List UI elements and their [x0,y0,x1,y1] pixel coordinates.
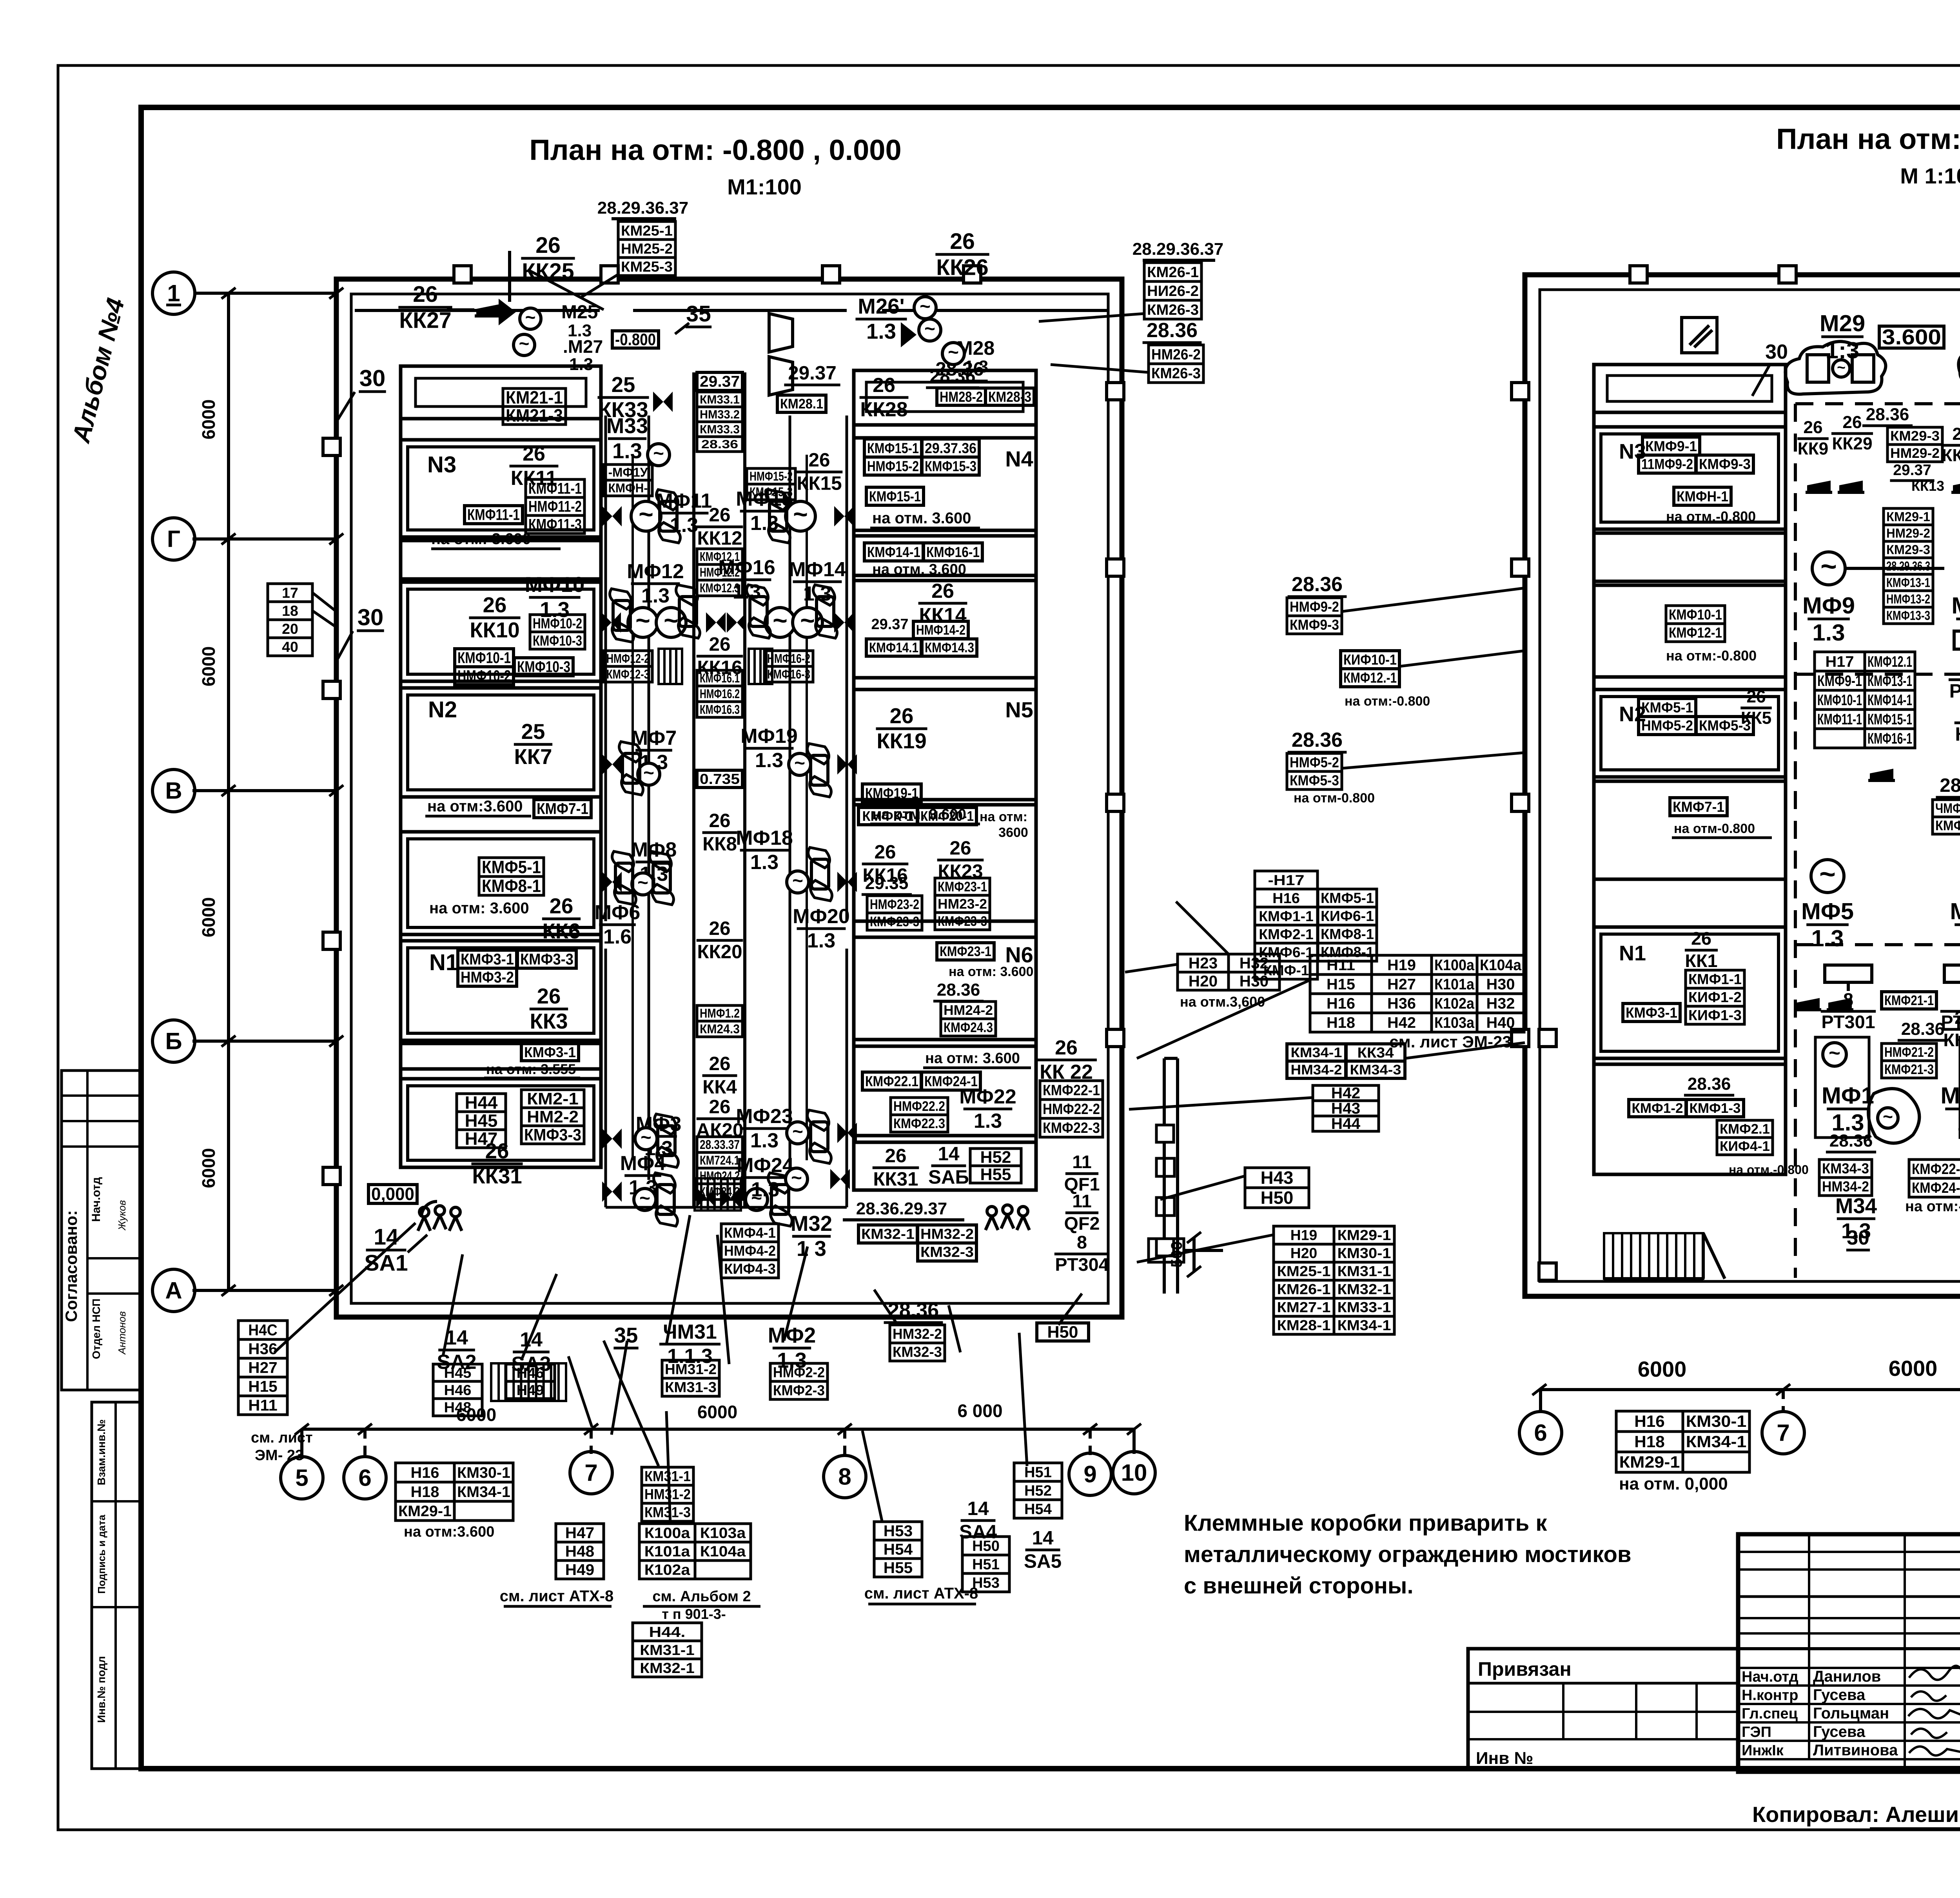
svg-text:КК19: КК19 [877,729,926,753]
right room row10 [854,1142,1036,1190]
corridor M26 cluster [777,229,995,412]
svg-text:Н44: Н44 [1331,1115,1361,1132]
svg-text:Н52: Н52 [980,1148,1011,1167]
svg-text:КМ30-1: КМ30-1 [1686,1412,1747,1430]
central shaft walls [633,372,807,1207]
label 30 top [338,365,386,419]
svg-text:Н51: Н51 [972,1556,1000,1572]
svg-text:КМ724.1: КМ724.1 [700,1153,740,1167]
svg-text:на отм-0.800: на отм-0.800 [1674,821,1755,836]
svg-text:М29: М29 [1820,310,1865,336]
rp room row1 [1594,365,1786,412]
svg-text:20: 20 [282,621,298,637]
svg-text:Литвинова: Литвинова [1813,1742,1898,1759]
svg-text:К101а: К101а [1434,976,1475,993]
shaft stack KM24 [697,1137,742,1199]
label 25 KK33 [597,373,673,422]
svg-text:6000: 6000 [198,897,219,937]
svg-text:26: 26 [950,229,975,254]
svg-text:КМФ3-1: КМФ3-1 [1626,1004,1677,1021]
svg-text:Н45: Н45 [444,1365,472,1381]
rp pump MF21 [1940,1037,1960,1138]
svg-text:М 1:100: М 1:100 [1900,163,1960,188]
corridor KK27 cluster [398,282,501,333]
room N6 [854,937,1036,1040]
label 30 mid [338,604,384,659]
svg-text:НМ25-2: НМ25-2 [621,240,673,257]
axis circle 6 left [344,1429,386,1499]
svg-text:17: 17 [282,584,298,601]
svg-text:А: А [165,1277,182,1303]
svg-text:~: ~ [635,606,650,635]
label M29 [1820,310,1865,363]
svg-text:~: ~ [1829,1042,1840,1064]
svg-text:КМФ20-1: КМФ20-1 [920,809,974,824]
svg-text:Н16: Н16 [1272,890,1300,906]
H17 H16 stack [1255,871,1377,979]
svg-text:НМ24-2: НМ24-2 [944,1003,993,1018]
svg-text:28.36: 28.36 [1829,1131,1873,1150]
svg-text:КИФ6-1: КИФ6-1 [1321,908,1374,924]
svg-text:Н53: Н53 [884,1522,913,1540]
svg-text:НМФ23-2: НМФ23-2 [870,897,919,912]
svg-text:КМ33-1: КМ33-1 [1338,1299,1391,1316]
left room row 4 [401,582,601,681]
svg-text:МФ16: МФ16 [718,556,775,579]
svg-text:МФ13: МФ13 [1951,592,1960,619]
svg-text:~: ~ [641,1127,652,1148]
svg-text:КК13: КК13 [1911,478,1944,494]
svg-text:КМ21-1: КМ21-1 [506,387,563,407]
svg-text:Н46: Н46 [517,1365,544,1381]
svg-text:26: 26 [535,233,561,258]
cluster MF2 [768,1323,828,1399]
svg-text:Инв.№ подл: Инв.№ подл [95,1656,107,1723]
svg-text:КМФ21-3: КМФ21-3 [1884,1062,1934,1077]
svg-text:КМ32-1: КМ32-1 [640,1660,695,1676]
QF1 QF2 PT304 [1054,1152,1223,1275]
svg-text:Н50: Н50 [1047,1323,1078,1341]
stack NMF12 row [604,649,813,684]
svg-text:25: 25 [612,373,635,397]
shaft frac KK12 [697,504,743,549]
svg-text:т п 901-3-: т п 901-3- [662,1606,726,1622]
svg-text:НМФ13-2: НМФ13-2 [1886,592,1930,606]
svg-text:Н16: Н16 [1327,995,1355,1012]
svg-text:28.29.36.3: 28.29.36.3 [1886,559,1930,573]
shaft label 29.37 [697,372,742,390]
svg-text:КМФ11-3: КМФ11-3 [528,516,582,533]
svg-text:~: ~ [792,871,803,891]
svg-text:КМФ13-1: КМФ13-1 [1867,673,1912,690]
right room row4 [854,580,1036,678]
svg-text:КМ24.3: КМ24.3 [700,1022,740,1036]
rp PT301 [1821,965,1876,1032]
svg-text:КМФ1-2: КМФ1-2 [1632,1101,1683,1116]
left room row 3 [401,541,601,579]
svg-text:КМ27-1: КМ27-1 [1277,1299,1331,1316]
svg-text:КМФ2.1: КМФ2.1 [1720,1121,1770,1137]
svg-text:26: 26 [550,894,573,918]
label MF20 [793,905,850,952]
KMF10 KMF12 mid cluster [1341,651,1525,709]
svg-text:1.6: 1.6 [603,925,632,948]
bottom cluster H16 KM30 left [396,1463,513,1540]
left room row 9 [401,1079,601,1167]
svg-text:КМФ-1: КМФ-1 [1263,962,1309,978]
svg-text:КМФ22-3: КМФ22-3 [1043,1120,1100,1136]
svg-text:КМФ9-1: КМФ9-1 [1645,438,1697,454]
svg-text:М1:100: М1:100 [727,174,802,199]
label 30 rp left [1752,341,1788,396]
svg-text:КМФ24.3: КМФ24.3 [944,1020,993,1035]
svg-text:М25: М25 [561,302,598,323]
svg-text:КМФ13-3: КМФ13-3 [1886,608,1930,623]
svg-text:26: 26 [537,984,561,1008]
svg-text:-0.800: -0.800 [615,330,656,349]
room N4 [854,438,1036,530]
svg-text:28.36: 28.36 [1901,1020,1945,1039]
svg-text:НМФ15-2: НМФ15-2 [867,458,919,474]
svg-text:6000: 6000 [198,1148,219,1188]
svg-text:Н30: Н30 [1240,973,1269,990]
svg-text:N1: N1 [1619,942,1646,965]
svg-text:1.3: 1.3 [750,851,779,874]
signature rows [1738,1668,1960,1759]
left wall leader labels 17 18 20 40 [268,584,336,656]
svg-text:26: 26 [931,580,954,602]
svg-text:КМ34-3: КМ34-3 [1822,1161,1869,1177]
shaft stack NMF1 [697,1005,742,1037]
rp labels 28.36 NMF17 [1933,775,1960,834]
svg-text:Н54: Н54 [1024,1501,1052,1517]
svg-text:КМ34-1: КМ34-1 [1338,1317,1391,1334]
svg-text:29.37: 29.37 [1893,462,1931,479]
svg-text:КМФ5-1: КМФ5-1 [482,857,541,877]
svg-text:на отм: 3.600: на отм: 3.600 [429,900,529,917]
svg-text:Г: Г [167,526,180,552]
rp stack KMF22 [1905,1159,1960,1215]
label cluster N1 room [458,950,576,1033]
svg-text:29.37: 29.37 [700,373,740,390]
svg-text:~: ~ [525,307,536,327]
stack NMF1x left [604,465,652,496]
svg-text:26: 26 [1955,1007,1960,1028]
svg-text:26: 26 [950,837,971,859]
rp pump M34 [1826,1089,1919,1250]
svg-text:НМФ2-2: НМФ2-2 [773,1365,825,1381]
svg-text:40: 40 [282,639,298,655]
svg-text:Н27: Н27 [1387,976,1416,993]
svg-text:Копировал: Алешикова: Копировал: Алешикова [1752,1802,1960,1827]
svg-text:Б: Б [165,1028,182,1054]
svg-text:Нач.отд: Нач.отд [90,1177,103,1222]
label cluster KMF5 room6 [429,857,581,943]
door swing figures bottom left [418,1201,462,1231]
svg-text:Н17: Н17 [1826,653,1854,670]
svg-text:НМФ22-2: НМФ22-2 [1043,1101,1100,1118]
svg-text:-Н17: -Н17 [1268,872,1305,888]
svg-text:КМФ1-1: КМФ1-1 [1259,908,1314,924]
svg-text:7: 7 [1777,1419,1789,1446]
svg-text:Н27: Н27 [248,1359,277,1377]
left room row 8 [401,1043,601,1069]
svg-text:26: 26 [875,841,896,863]
rp stack KM34 [1819,1159,1872,1196]
svg-text:НИ26-2: НИ26-2 [1147,283,1199,299]
room N5 [854,690,1036,800]
svg-text:КМ30-1: КМ30-1 [1338,1245,1391,1261]
right room row3 [854,536,1036,578]
svg-text:6000: 6000 [697,1402,737,1422]
svg-text:26: 26 [890,704,914,728]
big table H19 KM29 [1274,1226,1394,1334]
axis circle 5 [281,1429,323,1499]
svg-text:на отм:-0.800: на отм:-0.800 [1666,648,1757,664]
svg-text:КМФ12-1: КМФ12-1 [1669,625,1722,641]
room N1 [401,941,601,1040]
svg-text:В: В [165,777,182,804]
svg-text:КМ26-3: КМ26-3 [1147,301,1199,318]
svg-text:КИФ1-2: КИФ1-2 [1688,989,1742,1005]
label M33 [606,414,670,466]
svg-text:26: 26 [483,593,507,617]
svg-text:КМФ16-1: КМФ16-1 [926,544,980,560]
svg-text:Н20: Н20 [1189,973,1218,990]
svg-text:КМ29-1: КМ29-1 [1338,1227,1391,1243]
svg-text:1.3: 1.3 [569,355,593,374]
svg-text:3.600: 3.600 [1882,325,1941,349]
svg-text:МФ22: МФ22 [959,1085,1016,1108]
svg-text:КМФ5-1: КМФ5-1 [1641,700,1693,716]
left axis circle G [152,518,343,560]
left room row 1 [401,366,601,419]
rp pump MF5 [1801,858,1854,951]
svg-text:N5: N5 [1005,697,1033,722]
rp room N3 [1594,427,1786,529]
vertical text Album N4 [67,295,130,446]
svg-text:М33: М33 [606,414,648,438]
svg-text:0,000: 0,000 [371,1184,414,1204]
left plan bottom stair [491,1363,566,1401]
left room row 6 [401,832,601,934]
svg-text:см. лист ЭМ-23: см. лист ЭМ-23 [1389,1032,1511,1051]
svg-text:К101а: К101а [644,1543,691,1559]
svg-text:КМ32-3: КМ32-3 [920,1244,974,1260]
svg-text:МФ12: МФ12 [627,560,684,583]
svg-text:НМФ11-2: НМФ11-2 [528,498,582,515]
cluster NM31 [659,1321,720,1396]
svg-text:на отм:3.600: на отм:3.600 [427,798,523,815]
svg-text:НМ32-2: НМ32-2 [893,1326,942,1342]
svg-text:.М27: .М27 [563,336,603,357]
svg-text:Клеммные коробки приварить: Клеммные коробки приварить к [1184,1510,1547,1536]
svg-text:Н40: Н40 [1486,1014,1515,1031]
svg-text:28.29.36.37: 28.29.36.37 [1132,240,1223,259]
svg-text:МФ19: МФ19 [740,725,798,748]
box 3.600 [1879,325,1944,349]
svg-text:КК20: КК20 [697,941,742,962]
svg-text:Гусева: Гусева [1813,1686,1866,1704]
svg-text:на отм-0.800: на отм-0.800 [1294,791,1375,806]
svg-text:КК28: КК28 [860,398,907,421]
door swing figures bottom right [985,1205,1029,1230]
svg-text:КМФ3-1: КМФ3-1 [461,951,514,968]
svg-text:НМФ16-2: НМФ16-2 [767,651,810,666]
svg-text:НМФ15-2: НМФ15-2 [750,469,793,483]
svg-text:Инв №: Инв № [1476,1749,1534,1768]
svg-text:КМФ23-1: КМФ23-1 [940,944,991,959]
svg-text:КМФ2-1: КМФ2-1 [1259,926,1314,942]
rp pump MF17 [1950,858,1960,951]
title block main outline [1738,1534,1960,1772]
svg-text:26: 26 [709,1096,731,1118]
rp labels KK9 KK29 [1797,405,1960,494]
svg-text:КМФ3-3: КМФ3-3 [524,1126,581,1144]
rp room N2 [1594,687,1786,777]
svg-text:~: ~ [664,606,679,635]
svg-text:29.37.36: 29.37.36 [925,440,976,456]
svg-text:КМФ7-1: КМФ7-1 [537,800,588,818]
svg-text:Н44.: Н44. [649,1624,686,1640]
svg-text:SАБ: SАБ [928,1166,969,1188]
svg-text:КМ26-1: КМ26-1 [1277,1281,1331,1297]
rp flap row low [1795,998,1853,1010]
svg-text:КМФ10-3: КМФ10-3 [533,632,582,649]
svg-text:КМФ5-1: КМФ5-1 [1321,890,1374,906]
svg-text:N2: N2 [428,697,457,722]
svg-text:КМФ16.3: КМФ16.3 [700,702,740,717]
svg-text:28.36: 28.36 [1688,1074,1731,1094]
svg-text:на отм.-0.800: на отм.-0.800 [1729,1163,1809,1177]
svg-text:Н52: Н52 [1024,1482,1052,1499]
cluster H23 H32 table [1178,954,1279,1010]
svg-text:Н51: Н51 [1024,1464,1052,1480]
rp pump MF1 [1815,1037,1874,1138]
svg-text:26: 26 [709,810,731,831]
svg-text:НМ2-2: НМ2-2 [527,1108,579,1126]
box 0.000 [368,1184,417,1204]
svg-text:Н44: Н44 [465,1092,498,1112]
shaft frac KK20 [697,918,743,962]
svg-text:КМФ16-1: КМФ16-1 [1867,730,1912,747]
svg-text:Н50: Н50 [972,1537,1000,1554]
svg-text:КМФ11-1: КМФ11-1 [467,506,520,524]
svg-text:КК34: КК34 [1357,1044,1394,1061]
svg-text:НМФ9-2: НМФ9-2 [1290,599,1339,615]
pump row D (MF8 MF18) [602,827,857,905]
svg-text:Н23: Н23 [1189,955,1218,972]
svg-text:28.36: 28.36 [937,980,980,1000]
svg-text:КК8: КК8 [702,833,737,855]
cluster KK22 [1036,1036,1103,1137]
svg-text:НМ31-2: НМ31-2 [644,1486,691,1502]
svg-text:Н47: Н47 [565,1524,594,1542]
svg-text:КМФ9-3: КМФ9-3 [1290,617,1339,633]
svg-text:КИФ4-3: КИФ4-3 [724,1261,776,1277]
svg-text:К102а: К102а [644,1561,691,1578]
svg-text:1.3: 1.3 [1812,619,1845,646]
svg-text:КМФ5-3: КМФ5-3 [1290,773,1339,789]
svg-text:КК29: КК29 [1832,434,1872,454]
svg-text:~: ~ [643,763,654,784]
svg-text:26: 26 [1803,418,1822,437]
label cluster room9 [457,1090,584,1188]
right room row7 [854,805,1036,930]
svg-text:10: 10 [1121,1459,1147,1486]
svg-text:ЭМ- 23: ЭМ- 23 [255,1447,303,1464]
svg-text:Н11: Н11 [248,1397,277,1414]
svg-text:План на отм: 3.600: План на отм: 3.600 [1776,123,1960,155]
svg-text:КМФ15-1: КМФ15-1 [1867,711,1912,728]
svg-text:Взам.инв.№: Взам.инв.№ [95,1419,107,1485]
svg-text:КМФ10-1: КМФ10-1 [457,650,511,667]
svg-text:КМ26-3: КМ26-3 [1151,365,1201,382]
svg-text:К103а: К103а [1434,1014,1475,1031]
svg-text:25: 25 [521,720,545,744]
left rooms column outline [401,366,601,1167]
svg-text:1 3: 1 3 [797,1237,826,1261]
svg-text:SА5: SА5 [1024,1550,1062,1572]
svg-text:КМФ1-3: КМФ1-3 [1690,1101,1741,1116]
svg-text:КМ29-1: КМ29-1 [1619,1453,1680,1471]
svg-text:РТ301: РТ301 [1821,1012,1875,1032]
svg-text:1.3: 1.3 [866,319,896,343]
svg-text:КМФ23-3: КМФ23-3 [870,914,919,929]
axis circle 10 left [1113,1429,1155,1494]
cluster 28.36 KM26 right [1051,319,1203,383]
svg-text:КМФ9-1: КМФ9-1 [1817,673,1862,690]
svg-text:М32: М32 [791,1212,832,1236]
svg-text:Н46: Н46 [444,1382,472,1398]
label MF10 room4 [455,573,585,685]
svg-text:КМФ14-1: КМФ14-1 [1867,692,1912,709]
svg-text:26: 26 [523,443,545,465]
svg-text:РТ302: РТ302 [1949,680,1960,702]
svg-text:МФ21: МФ21 [1940,1082,1960,1109]
svg-text:КМФ23-3: КМФ23-3 [938,914,987,929]
svg-text:26: 26 [413,282,438,307]
svg-text:КМ32-1: КМ32-1 [861,1226,915,1242]
svg-text:КМФК-1: КМФК-1 [862,809,914,824]
cluster KM26 right of left plan [1039,240,1223,321]
svg-text:Н19: Н19 [1290,1227,1317,1243]
label row8 KMF3-1 [484,1043,580,1078]
svg-text:КМФ14.3: КМФ14.3 [925,640,974,655]
svg-text:КМФ4-1: КМФ4-1 [724,1225,776,1241]
left plan outer wall [336,279,1122,1317]
corridor top M25 cluster [499,233,604,374]
shaft frac KK8 [702,810,737,855]
kopiroval line [1752,1802,1960,1829]
left axis circle V [152,769,343,812]
rp flap row mid [1868,769,1960,780]
rp grid H17 [1815,652,1915,748]
svg-text:КМ31-3: КМ31-3 [665,1379,717,1395]
svg-text:~: ~ [637,873,648,893]
left plan right rooms outline [854,370,1036,1190]
cluster H4C left edge [238,1321,313,1464]
svg-text:НМ32-2: НМ32-2 [920,1226,974,1242]
svg-text:см. лист АТХ-8: см. лист АТХ-8 [500,1588,614,1605]
svg-text:КК6: КК6 [542,919,580,943]
box -0.800 [612,330,659,349]
shaft stack KMF12 [697,549,742,596]
bottom stack H44 [633,1623,702,1677]
svg-text:1.3: 1.3 [974,1110,1002,1132]
svg-text:КМФ9-3: КМФ9-3 [1699,456,1751,472]
svg-text:К102а: К102а [1434,995,1475,1012]
